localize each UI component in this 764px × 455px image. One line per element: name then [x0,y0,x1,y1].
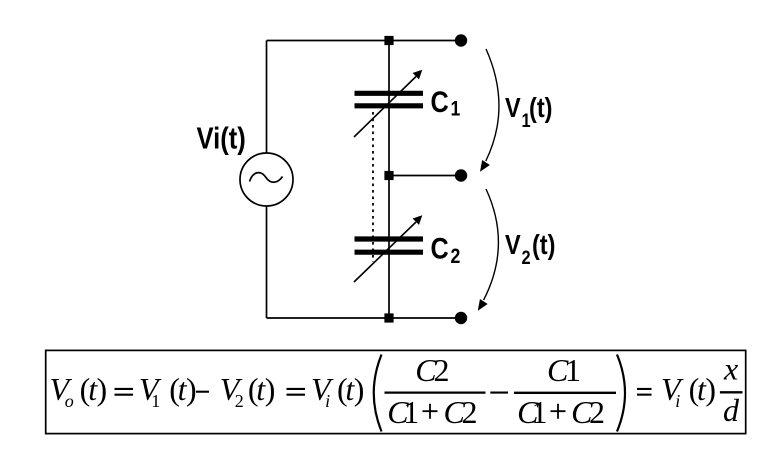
svg-text:V: V [505,93,521,123]
svg-text:): ) [354,371,365,407]
svg-text:): ) [186,371,197,407]
svg-text:2: 2 [434,352,450,388]
svg-text:i: i [675,391,680,411]
svg-text:2: 2 [589,394,605,430]
svg-text:1: 1 [403,394,419,430]
svg-text:d: d [723,392,740,428]
svg-text:1: 1 [450,97,460,121]
svg-text:C: C [431,231,449,265]
svg-text:2: 2 [462,394,478,430]
svg-text:1: 1 [532,394,548,430]
svg-text:C: C [431,85,449,119]
svg-text:o: o [65,391,74,411]
svg-text:(t): (t) [529,93,552,123]
svg-text:2: 2 [450,245,460,269]
svg-text:V: V [505,230,521,260]
svg-text:(t): (t) [532,230,555,260]
svg-text:): ) [265,371,276,407]
svg-text:Vi(t): Vi(t) [197,121,246,155]
svg-text:): ) [97,371,108,407]
svg-text:): ) [705,371,716,407]
svg-text:2: 2 [521,247,530,269]
svg-text:i: i [325,391,330,411]
svg-text:1: 1 [565,352,581,388]
svg-text:x: x [723,351,738,387]
svg-text:1: 1 [151,391,160,411]
svg-text:2: 2 [235,391,244,411]
